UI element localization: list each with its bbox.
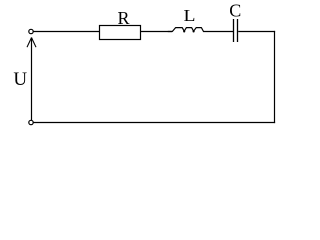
capacitor C (229, 1, 241, 42)
wire (bottom) (33, 122, 275, 124)
wire (inductor to capacitor) (204, 31, 234, 33)
svg-text:U: U (13, 69, 27, 90)
wire (capacitor to right corner) (238, 31, 275, 33)
svg-text:L: L (184, 6, 196, 25)
wire (resistor to inductor) (141, 31, 173, 33)
inductor L (168, 6, 204, 33)
wire (right vertical) (274, 31, 276, 123)
svg-text:R: R (117, 8, 129, 28)
wire (top, terminal to resistor) (33, 31, 100, 33)
terminal (top-left) (29, 29, 33, 33)
svg-text:C: C (229, 1, 241, 21)
resistor R (100, 8, 141, 39)
voltage source label U (13, 69, 27, 90)
wire (left vertical with voltage arrow) (27, 37, 36, 120)
terminal (bottom-left) (29, 120, 33, 124)
